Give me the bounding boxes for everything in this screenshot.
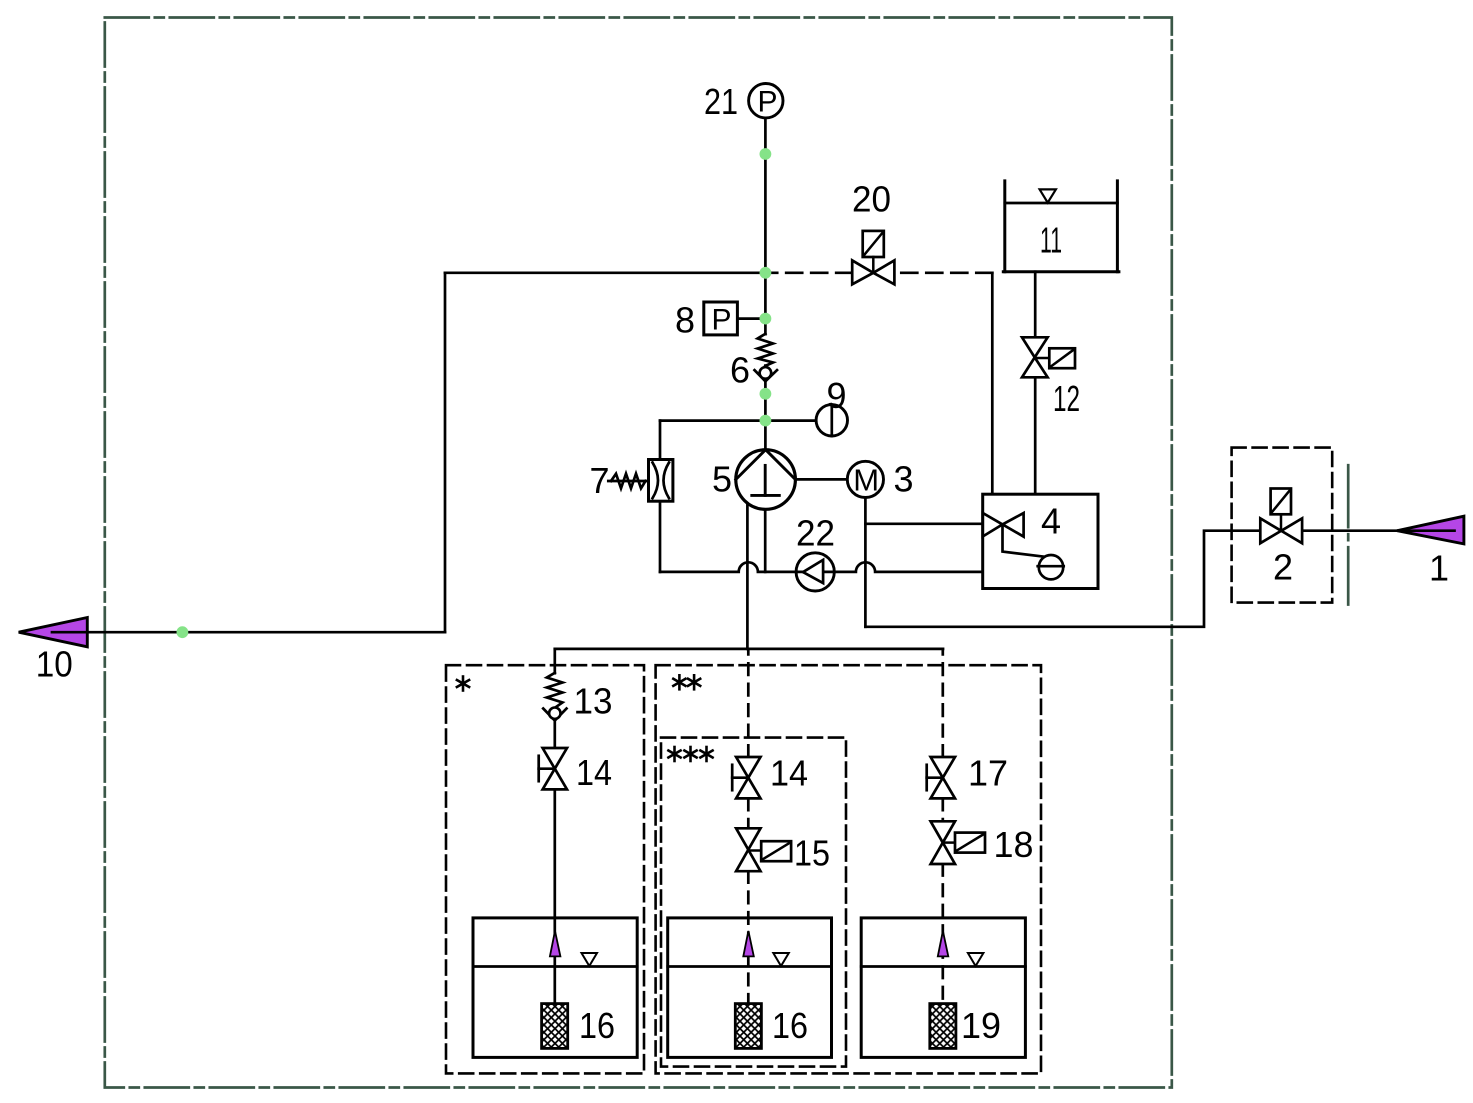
wire transmitter 8 connector [737, 317, 765, 320]
node dot at junction 272.8 [760, 267, 772, 279]
wire bottom right run to valve 2 [865, 531, 1260, 627]
hand valve 14 (***) [732, 757, 760, 798]
motor 3 [847, 461, 883, 497]
hand valve 17 [927, 757, 955, 798]
svg-text:14: 14 [770, 753, 808, 794]
arrow 10 [19, 618, 88, 647]
svg-text:7: 7 [590, 460, 610, 501]
wire to gauge 9 [660, 419, 817, 422]
svg-text:21: 21 [704, 81, 738, 122]
svg-text:10: 10 [36, 644, 73, 685]
node dot on outlet line [177, 626, 189, 638]
boundary dash-dot border [105, 18, 1172, 1088]
level control box 4 [983, 494, 1098, 588]
pressure gauge 21 [749, 84, 783, 119]
wire bypass bottom with crossing hop at x=748 [660, 562, 796, 572]
relief valve 6 ball [760, 367, 772, 379]
damper 7 spring [608, 474, 648, 489]
svg-text:22: 22 [796, 513, 835, 554]
solenoid valve 18 [931, 821, 985, 864]
svg-text:12: 12 [1053, 378, 1080, 419]
svg-text:2: 2 [1273, 547, 1293, 588]
gauge 9 [816, 405, 847, 436]
svg-text:5: 5 [712, 459, 732, 500]
wire pump 5 bottom outlet [764, 509, 767, 572]
svg-text:17: 17 [968, 753, 1008, 794]
tank 19 [861, 918, 1025, 1058]
wire branch 3 dashed mid [941, 799, 944, 822]
solenoid valve 15 [736, 828, 791, 871]
wire bypass left x=660 lower [659, 501, 662, 572]
asterisk *** [668, 747, 712, 761]
wire left vertical x=445 [444, 273, 447, 632]
pump 5 [736, 450, 796, 510]
solenoid valve 20 [852, 231, 894, 284]
dashed enclosure * [446, 665, 644, 1073]
node dot at transmitter 8 [760, 313, 772, 325]
svg-text:4: 4 [1041, 501, 1061, 542]
boundary segment near valve 2 [1347, 465, 1350, 604]
relief valve 6 spring [758, 334, 773, 366]
wire pump 5 to motor 3 [795, 478, 847, 481]
svg-text:18: 18 [994, 824, 1034, 865]
wire pilot vertical to box 4 [991, 273, 994, 494]
wire branch 2 dashed to tank [747, 871, 750, 1003]
asterisk ** [673, 675, 700, 689]
svg-text:16: 16 [579, 1005, 615, 1046]
svg-text:9: 9 [827, 375, 847, 416]
wire motor drop x=865.4 [864, 498, 867, 627]
wire bypass left x=660 upper [659, 421, 662, 460]
tank 16 (*) [473, 918, 637, 1058]
wire to box 4 upper port [865, 522, 982, 525]
wire valve 2 to arrow 1 [1302, 529, 1398, 532]
wire valve 12 to box 4 [1034, 377, 1037, 494]
pressure transmitter 8 [704, 302, 738, 337]
wire pilot dashed from node to valve 20 [768, 271, 852, 274]
node dot below valve 6 [760, 388, 772, 400]
tank 16 (**) [668, 918, 832, 1058]
svg-text:3: 3 [894, 459, 914, 500]
svg-text:16: 16 [772, 1005, 808, 1046]
svg-text:14: 14 [576, 752, 612, 793]
svg-text:P: P [712, 304, 732, 337]
svg-text:1: 1 [1429, 548, 1449, 589]
hand valve 14 (*) [539, 748, 567, 789]
damper 7 body [649, 460, 673, 502]
check valve 13 spring [547, 673, 563, 708]
wire branch 2 dashed upper [747, 649, 750, 757]
svg-text:6: 6 [730, 350, 750, 391]
wire pump 5 bottom-left drop to manifold [746, 503, 749, 649]
dashed enclosure ** [656, 665, 1041, 1073]
wire branch 2 dashed mid [747, 799, 750, 829]
svg-text:M: M [853, 463, 879, 498]
wire branch 3 dashed upper [941, 649, 944, 757]
node dot at 154 [760, 148, 772, 160]
wire manifold bottom [555, 648, 943, 651]
wire branch 3 dashed to tank [941, 864, 944, 1004]
dashed enclosure valve 2 [1232, 448, 1333, 603]
wire pilot dashed valve 20 to corner [894, 271, 992, 274]
svg-text:11: 11 [1040, 220, 1062, 261]
arrow 1 [1397, 516, 1464, 544]
wire branch 1 mid [553, 721, 556, 749]
asterisk * [457, 677, 469, 691]
svg-text:20: 20 [852, 179, 891, 220]
wire through pump 22 to crossing hop at x=865 [796, 562, 983, 572]
wire tank 11 outlet upper [1034, 272, 1037, 338]
wire horizontal left run y=272.8 [445, 271, 765, 274]
dashed enclosure *** [661, 738, 846, 1067]
pump 22 [796, 553, 834, 591]
tank 11 [1003, 181, 1119, 272]
svg-text:15: 15 [794, 832, 830, 873]
wire main vertical from gauge 21 to pump 5 [764, 118, 767, 334]
node dot at gauge 9 junction [760, 415, 772, 427]
solenoid valve 12 [1022, 337, 1075, 377]
wire branch 1 upper [553, 649, 556, 673]
svg-text:8: 8 [675, 300, 695, 341]
wire outlet run to arrow 10 [52, 631, 445, 634]
solenoid valve 2 [1260, 489, 1302, 544]
check valve 13 seat [543, 709, 566, 721]
check valve 13 ball [549, 708, 560, 719]
wire branch 1 to tank 16 [553, 789, 556, 1003]
svg-text:19: 19 [961, 1005, 1001, 1046]
svg-text:13: 13 [574, 680, 613, 721]
relief valve 6 seat [755, 370, 778, 381]
svg-text:P: P [758, 86, 778, 119]
